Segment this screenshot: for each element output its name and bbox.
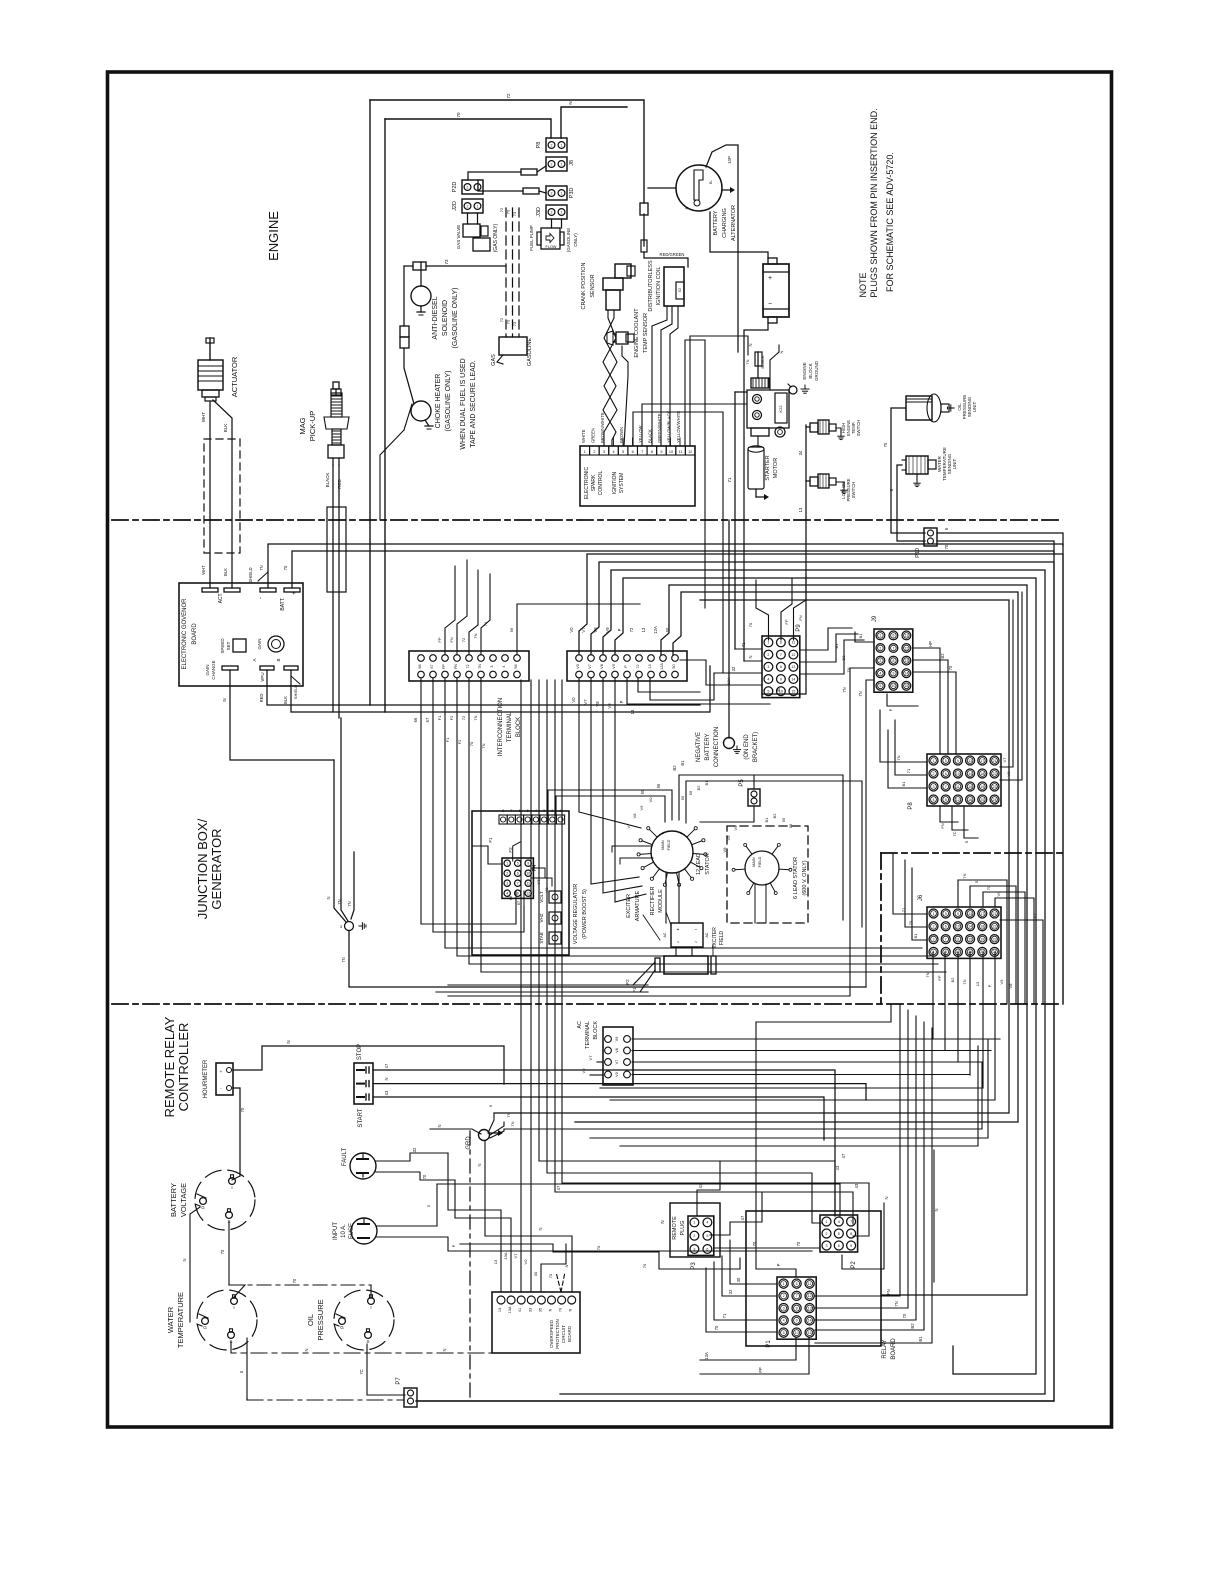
svg-text:BOARD: BOARD [192,623,198,645]
svg-text:BLACK: BLACK [648,429,653,443]
svg-text:70: 70 [283,565,288,570]
svg-text:ENGINE: ENGINE [802,362,807,379]
oil pressure sending unit [906,396,932,420]
svg-text:14: 14 [904,672,908,676]
svg-text:V9: V9 [726,835,731,841]
svg-text:N: N [660,1220,665,1223]
svg-text:MODULE: MODULE [658,889,664,913]
svg-text:VOLT: VOLT [539,891,544,903]
svg-text:P5: P5 [739,779,745,787]
svg-text:70: 70 [506,209,511,214]
svg-text:7N: 7N [473,633,478,638]
mag pick-up spark plug [335,389,337,395]
svg-text:B1: B1 [918,1336,923,1342]
P9 right wires [800,628,852,650]
svg-text:23: 23 [993,937,997,941]
svg-text:STOP: STOP [357,1044,363,1060]
svg-text:(POWER BOOST 5): (POWER BOOST 5) [582,889,588,939]
svg-text:S: S [366,1339,369,1344]
svg-text:71: 71 [727,477,732,483]
svg-text:5: 5 [517,862,519,866]
svg-text:2: 2 [593,450,595,454]
svg-text:FIELD: FIELD [758,856,762,867]
svg-text:MAIN: MAIN [661,840,665,850]
svg-text:INPUT: INPUT [333,1222,339,1240]
svg-text:WHITE: WHITE [581,429,586,443]
svg-text:7C: 7C [952,831,957,836]
svg-text:7N: 7N [858,691,863,696]
battery positive wire [710,212,768,258]
svg-text:FN: FN [940,823,945,828]
svg-text:GENERATOR: GENERATOR [209,828,224,909]
svg-text:7N: 7N [896,755,901,760]
svg-text:6: 6 [780,641,782,645]
svg-text:PROTECTION: PROTECTION [555,1319,560,1349]
svg-text:B1: B1 [858,633,863,639]
svg-text:15: 15 [904,684,908,688]
svg-text:ELECTRONIC GOVENOR: ELECTRONIC GOVENOR [182,598,188,670]
svg-text:70: 70 [548,1273,553,1278]
svg-text:INTERCONNECTION: INTERCONNECTION [498,698,504,756]
svg-text:BROWN/WHITE: BROWN/WHITE [600,412,605,443]
relay board outline [746,1211,881,1346]
svg-text:N: N [442,1348,447,1351]
svg-text:13: 13 [493,1259,498,1264]
inline splice connector [400,326,409,337]
fault receptacle [350,1153,376,1179]
connector P10 [924,528,937,546]
voltage regulator box [472,811,569,955]
svg-text:FN: FN [449,637,454,642]
voltage regulator strip wires 56 55 [548,790,672,820]
svg-text:TEMP SENSOR: TEMP SENSOR [643,313,649,353]
svg-text:F1: F1 [437,715,442,720]
svg-text:B1: B1 [901,781,906,787]
top rail wire N [561,107,627,138]
svg-text:5: 5 [706,1234,708,1238]
svg-text:ALTERNATOR: ALTERNATOR [731,205,737,241]
svg-text:66: 66 [418,664,422,668]
ESC terminal strip [580,446,590,455]
svg-text:STATOR: STATOR [705,853,711,874]
svg-text:STARTER: STARTER [765,455,771,480]
svg-text:I: I [233,1305,234,1310]
svg-text:72: 72 [499,317,504,322]
svg-text:3: 3 [543,809,545,813]
svg-text:B2: B2 [696,785,701,791]
svg-text:MOTOR: MOTOR [773,458,779,478]
svg-text:B1: B1 [913,933,918,939]
svg-text:ELECTRONIC: ELECTRONIC [584,467,590,500]
svg-text:1: 1 [693,1221,695,1225]
svg-text:5: 5 [767,690,769,694]
P1 bottom wires [700,1338,796,1360]
svg-text:V9: V9 [999,979,1004,985]
svg-text:1: 1 [879,634,881,638]
svg-text:GAS: GAS [491,354,497,366]
svg-text:6: 6 [632,450,634,454]
svg-text:V0: V0 [523,1259,528,1265]
voltage regulator terminal strip [499,815,507,824]
wires above K22 [757,352,759,378]
svg-text:72: 72 [461,715,466,720]
svg-text:P: P [987,984,992,987]
svg-text:13: 13 [904,659,908,663]
switch wires 34 13 [806,426,810,428]
svg-text:N: N [286,1040,291,1043]
svg-text:N: N [304,1348,309,1351]
svg-text:4: 4 [535,809,537,813]
svg-text:BLK: BLK [223,424,228,433]
inline fuse P3D [478,180,523,191]
svg-text:AC: AC [705,932,709,937]
interconnection terminal block right [567,651,687,681]
battery [763,264,789,317]
gauge N bus dash-dot [231,1342,504,1353]
svg-text:BATTERY: BATTERY [713,210,719,235]
svg-text:TAPE AND SECURE LEAD.: TAPE AND SECURE LEAD. [470,360,477,447]
svg-text:BLOCK: BLOCK [593,1021,599,1040]
svg-text:3: 3 [933,785,935,789]
svg-text:2: 2 [551,163,553,167]
connector J2D [462,199,483,213]
svg-text:V8: V8 [544,887,549,893]
svg-text:B: B [276,658,281,661]
svg-text:1: 1 [561,163,563,167]
svg-text:~: ~ [695,940,698,946]
svg-text:PLUGS SHOWN FROM PIN INSERTION: PLUGS SHOWN FROM PIN INSERTION END. [869,108,879,297]
svg-text:(GASOLINE ONLY): (GASOLINE ONLY) [445,371,452,432]
svg-text:V9: V9 [607,703,612,709]
svg-text:V7: V7 [588,664,592,669]
svg-text:V7: V7 [1032,913,1037,919]
vertical feed from dashed boundary to relay board [756,1004,891,1022]
svg-text:NEGATIVE: NEGATIVE [696,732,702,762]
svg-text:TEMPERATURE: TEMPERATURE [176,1292,185,1348]
svg-text:2: 2 [551,809,553,813]
svg-text:N: N [182,1258,187,1261]
svg-text:F1: F1 [488,837,493,843]
P1 wires right [815,1004,900,1296]
svg-text:BLACK: BLACK [325,473,330,488]
svg-text:73: 73 [512,211,517,216]
svg-text:12 LEAD: 12 LEAD [696,853,702,875]
svg-text:TERMINAL: TERMINAL [585,1021,591,1049]
svg-text:BLACK: BLACK [760,355,765,368]
svg-text:10: 10 [891,684,895,688]
starter ground [755,489,757,497]
svg-text:56: 56 [788,823,793,828]
svg-text:J9: J9 [872,615,878,622]
svg-text:F2: F2 [449,715,454,720]
svg-text:G: G [201,1205,205,1210]
svg-text:67: 67 [425,717,430,722]
svg-text:N: N [779,350,784,353]
svg-text:4: 4 [879,672,881,676]
svg-text:72: 72 [461,637,466,642]
starter motor [748,447,764,489]
coil feed RED/GREEN [643,214,645,246]
fault wires [376,1153,448,1161]
connector P1 [777,1277,816,1339]
svg-text:10: 10 [795,1331,799,1335]
svg-text:47: 47 [384,1063,389,1068]
J9 wires [855,632,874,642]
svg-text:11: 11 [679,450,683,454]
connector P8 engine [546,138,567,152]
svg-text:GREEN: GREEN [591,428,596,443]
P8 wires [880,710,927,762]
svg-text:IGNITION: IGNITION [612,472,618,495]
svg-text:55: 55 [781,817,786,822]
svg-text:N: N [384,1077,389,1080]
svg-text:70: 70 [469,741,474,746]
P5 wires [753,775,755,789]
svg-text:8: 8 [796,1306,798,1310]
svg-text:5: 5 [945,912,947,916]
negative battery connection ground [728,520,730,738]
svg-text:6: 6 [519,809,521,813]
svg-text:REMOTE: REMOTE [672,1216,678,1240]
svg-text:FAULT: FAULT [342,1148,348,1167]
svg-text:PICK-UP: PICK-UP [308,411,317,441]
svg-text:70: 70 [944,544,949,549]
svg-text:2: 2 [551,192,553,196]
svg-text:ENGINE: ENGINE [266,211,281,261]
svg-text:4: 4 [706,1221,708,1225]
oil pressure unit wire 70 [891,408,925,533]
svg-text:18: 18 [980,925,984,929]
svg-text:START: START [358,1108,364,1127]
svg-text:71: 71 [906,768,911,773]
svg-text:F2: F2 [457,739,462,744]
svg-text:55: 55 [680,795,685,800]
svg-text:N: N [748,655,753,658]
svg-text:7N: 7N [962,979,967,984]
svg-text:7: 7 [641,450,643,454]
svg-text:N: N [477,1163,482,1166]
AC terminal block left wires [597,1061,603,1063]
overspeed long feed wires [460,1244,740,1269]
svg-text:P: P [451,1244,456,1247]
svg-text:WATER: WATER [166,1306,175,1333]
svg-text:6: 6 [892,634,894,638]
svg-text:G: G [203,1325,207,1330]
svg-text:9: 9 [780,677,782,681]
6 lead stator (600V only) [727,826,808,923]
battery negative wire to N rail [744,323,768,661]
svg-text:V8: V8 [615,1048,619,1053]
exciter armature body [664,956,708,974]
svg-text:70: 70 [948,665,953,670]
battery charging alternator [676,165,722,211]
svg-text:-: - [258,597,264,599]
svg-text:V0: V0 [996,891,1001,897]
svg-text:13: 13 [798,507,803,512]
P7 wire right [417,1400,1054,1402]
svg-text:ANTI-DIESEL: ANTI-DIESEL [432,296,439,339]
svg-text:2: 2 [783,1294,785,1298]
svg-text:2: 2 [551,144,553,148]
connector J6 [927,907,1001,958]
svg-text:13: 13 [630,709,635,714]
svg-text:5: 5 [622,450,624,454]
svg-text:70: 70 [642,1263,647,1268]
svg-text:1: 1 [561,144,563,148]
svg-text:RELAY: RELAY [882,1339,888,1358]
svg-text:9: 9 [892,672,894,676]
svg-text:N: N [538,1227,543,1230]
svg-text:19: 19 [980,785,984,789]
svg-text:OIL: OIL [306,1314,315,1326]
LO ground node [334,760,346,922]
svg-text:FN: FN [886,1289,891,1295]
input 10A fuse receptacle [351,1218,377,1244]
GRD wires [430,1129,481,1134]
connector P7 [404,1388,417,1407]
high engine temp switch [810,423,818,432]
svg-text:12: 12 [956,798,960,802]
svg-text:5: 5 [783,1331,785,1335]
connector P2 [820,1215,858,1252]
svg-text:22: 22 [993,925,997,929]
governor speed set [233,639,246,652]
svg-text:11: 11 [956,785,960,789]
alternator ground arrow [722,189,730,191]
svg-text:(ON END: (ON END [744,734,750,760]
starter solenoid K22 [751,378,769,388]
svg-text:13: 13 [975,981,980,986]
svg-text:V0: V0 [615,1072,619,1077]
svg-text:7N: 7N [337,899,342,904]
svg-text:72: 72 [636,664,640,668]
svg-text:1: 1 [477,205,479,209]
svg-text:SHIELD: SHIELD [248,567,253,582]
svg-text:P2: P2 [851,1261,857,1269]
svg-text:56: 56 [509,627,514,632]
battery voltage gauge wires [228,1222,230,1285]
svg-text:70: 70 [506,319,511,324]
svg-text:32: 32 [731,666,736,671]
svg-text:A: A [252,658,257,661]
svg-text:70: 70 [220,1249,225,1254]
svg-text:7: 7 [945,785,947,789]
svg-text:P1: P1 [766,1340,772,1348]
actuator leads WHT/BLK [209,401,211,588]
section divider step right (vertical) [880,853,882,1004]
svg-text:1: 1 [506,862,508,866]
svg-text:N: N [568,101,573,104]
svg-text:7: 7 [510,809,512,813]
actuator body [209,338,211,360]
svg-text:V0: V0 [569,627,574,633]
svg-text:V0: V0 [576,664,580,669]
P9 top wires [756,580,769,640]
svg-text:2: 2 [506,872,508,876]
svg-text:SWITCH: SWITCH [856,420,861,437]
svg-text:FN: FN [798,615,803,620]
P1 wires left [756,1022,796,1277]
svg-text:7N: 7N [962,873,967,878]
alternator 10P wire [706,145,738,352]
svg-text:BLK: BLK [283,696,288,704]
svg-text:P8: P8 [908,802,914,810]
svg-text:GAIN: GAIN [257,638,262,649]
electronic governor board [179,583,303,686]
svg-text:P8: P8 [536,142,542,149]
svg-text:16: 16 [968,798,972,802]
svg-text:15: 15 [791,690,795,694]
svg-text:CRANK POSITION: CRANK POSITION [581,262,587,309]
hourmeter wires [233,1046,504,1084]
svg-text:FP: FP [937,975,942,980]
svg-text:7N: 7N [481,743,486,748]
svg-text:V7: V7 [588,1055,593,1061]
svg-text:2: 2 [933,925,935,929]
svg-text:P: P [776,1263,781,1266]
svg-text:AC: AC [577,1021,583,1029]
svg-text:REMOTE RELAY: REMOTE RELAY [162,1016,177,1117]
svg-text:12: 12 [688,450,692,454]
svg-text:8: 8 [945,798,947,802]
svg-text:20: 20 [980,950,984,954]
svg-text:11: 11 [808,1282,812,1286]
svg-text:WHT: WHT [201,565,206,575]
svg-text:VOLTAGE: VOLTAGE [179,1183,188,1217]
top rail wire 70 [385,119,551,138]
remote plug P3 outline [670,1203,720,1257]
svg-text:GAS VALVE: GAS VALVE [456,225,461,250]
svg-text:7N: 7N [894,1301,899,1306]
svg-text:13: 13 [968,759,972,763]
choke heater [411,401,431,421]
svg-text:3: 3 [783,1306,785,1310]
top rail wire 72 [370,100,644,203]
svg-text:BOARD: BOARD [567,1325,572,1342]
oil pressure gauge [334,1290,394,1350]
svg-text:VPU: VPU [260,672,265,681]
stop start switch [354,1063,373,1104]
svg-text:50: 50 [672,664,676,668]
svg-text:V7: V7 [513,1253,518,1259]
svg-text:12: 12 [904,646,908,650]
svg-text:43: 43 [835,1165,840,1170]
svg-text:J8: J8 [569,160,575,166]
svg-text:71: 71 [741,642,746,647]
gas block [499,337,527,355]
svg-text:17: 17 [980,759,984,763]
svg-text:13A: 13A [704,1352,709,1360]
inline fuse J8 [468,172,521,180]
svg-text:SYSTEM: SYSTEM [619,473,625,494]
section divider step right (horizontal) [881,852,1063,854]
connector P3 [688,1216,714,1255]
svg-text:24: 24 [993,798,997,802]
svg-text:66: 66 [508,895,513,900]
svg-text:2: 2 [767,653,769,657]
svg-text:V7: V7 [583,699,588,705]
svg-text:5: 5 [879,684,881,688]
svg-text:1: 1 [783,1282,785,1286]
anti-diesel solenoid [411,286,431,306]
fuel pump [551,219,553,228]
svg-text:CIRCUIT: CIRCUIT [561,1325,566,1343]
svg-text:B2: B2 [772,813,777,819]
svg-text:ENGINE COOLANT: ENGINE COOLANT [634,308,640,358]
svg-text:7N: 7N [506,1112,511,1117]
water temperature gauge [197,1290,257,1350]
svg-text:BATT.: BATT. [280,597,286,610]
